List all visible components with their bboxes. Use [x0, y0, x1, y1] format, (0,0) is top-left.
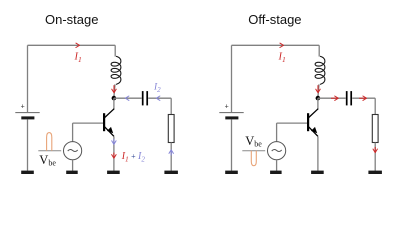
- wire capacitor to resistor: [352, 98, 375, 114]
- node collector junction: [112, 96, 117, 101]
- title On-stage: [45, 12, 98, 27]
- wire battery negative lead: [231, 119, 233, 170]
- wire emitter to ground: [317, 136, 319, 171]
- current arrow I2 emitter (blue): [112, 139, 116, 145]
- wire base: [277, 123, 307, 142]
- battery V1: [15, 104, 39, 120]
- current arrow I1 (right of capacitor): [359, 96, 366, 100]
- svg-text:On-stage: On-stage: [45, 12, 98, 27]
- current arrow I2 through resistor (up): [169, 150, 173, 156]
- resistor R1: [372, 115, 378, 143]
- resistor R1: [168, 115, 174, 143]
- wire battery positive lead: [231, 45, 233, 112]
- Vbe waveform pulse: [242, 151, 265, 166]
- inductor L1: [315, 56, 325, 84]
- label I1 + I2: [121, 151, 146, 164]
- current arrow I1 into node: [316, 85, 320, 93]
- current arrow I1 on top rail: [76, 43, 80, 47]
- ground (resistor): [164, 171, 178, 174]
- wire top rail to inductor: [318, 45, 320, 56]
- wire resistor to ground: [374, 143, 376, 171]
- label Vbe: [245, 134, 262, 149]
- Vbe waveform pulse: [38, 133, 61, 151]
- capacitor C1: [347, 91, 352, 105]
- current arrow I1 emitter (red): [112, 153, 116, 159]
- ground (battery): [21, 171, 34, 174]
- wire top rail to inductor: [114, 45, 116, 56]
- wire battery negative lead: [27, 119, 29, 170]
- wire ac source to ground: [276, 160, 278, 171]
- svg-text:Off-stage: Off-stage: [248, 12, 301, 27]
- wire ac source to ground: [72, 160, 74, 171]
- transistor Q1 (NPN): [103, 109, 114, 137]
- wire base: [73, 123, 103, 142]
- label I1: [278, 51, 286, 64]
- current arrow I1 (left of capacitor): [331, 96, 338, 100]
- ground (emitter): [311, 171, 324, 174]
- label I2: [153, 83, 161, 94]
- current arrow I1 through resistor (down): [373, 147, 377, 153]
- label I1: [74, 51, 82, 64]
- current arrow I2 (right of capacitor): [156, 96, 160, 100]
- ac source Vbe: [64, 142, 82, 160]
- wire node to capacitor: [318, 97, 346, 99]
- ground (battery): [225, 171, 238, 174]
- wire node to capacitor: [114, 97, 142, 99]
- svg-text:+: +: [21, 104, 25, 111]
- wire top rail: [232, 44, 320, 46]
- ground (resistor): [368, 171, 382, 174]
- current arrow I1 on top rail: [280, 43, 284, 47]
- wire inductor to node: [318, 84, 319, 96]
- ground (emitter): [107, 171, 120, 174]
- svg-text:+: +: [225, 104, 229, 111]
- wire resistor to ground: [170, 143, 172, 171]
- ground (ac source): [66, 171, 78, 174]
- transistor Q1 (NPN): [307, 109, 318, 137]
- wire collector: [317, 98, 319, 109]
- wire capacitor to resistor: [148, 98, 171, 114]
- inductor L1: [111, 56, 121, 84]
- current arrow I2 (left of capacitor): [125, 96, 129, 100]
- capacitor C1: [143, 91, 148, 105]
- title Off-stage: [248, 12, 301, 27]
- ac source Vbe: [268, 142, 286, 160]
- wire emitter to ground: [113, 136, 115, 171]
- wire collector: [113, 98, 115, 109]
- ground (ac source): [270, 171, 282, 174]
- wire top rail: [28, 44, 116, 46]
- label Vbe: [39, 153, 56, 168]
- wire inductor to node: [114, 84, 115, 96]
- node collector junction: [316, 96, 321, 101]
- battery V1: [219, 104, 243, 120]
- current arrow I1 into node: [112, 85, 116, 93]
- wire battery positive lead: [27, 45, 29, 112]
